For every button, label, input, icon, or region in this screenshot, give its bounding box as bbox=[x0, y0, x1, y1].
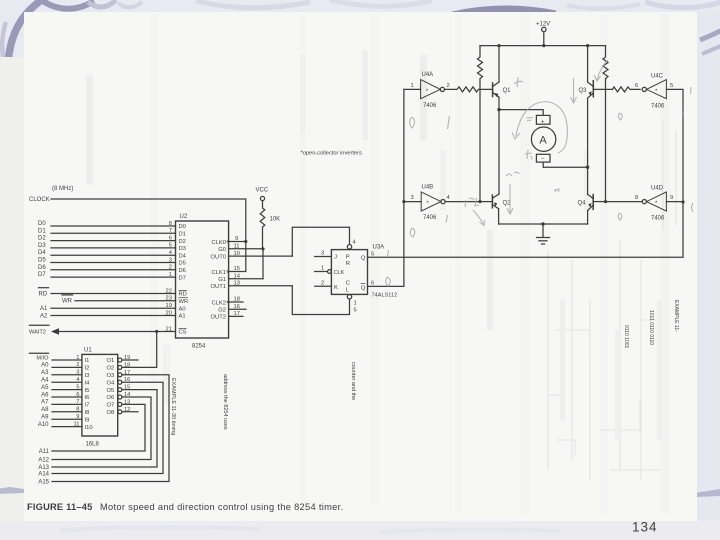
wire Q4 base bbox=[593, 201, 605, 203]
svg-text:5: 5 bbox=[354, 308, 357, 314]
svg-text:OUT2: OUT2 bbox=[211, 315, 226, 321]
svg-text:3: 3 bbox=[76, 370, 79, 376]
output O2 bubble, wire to CS node bbox=[118, 332, 157, 370]
svg-text:D7: D7 bbox=[38, 272, 46, 278]
svg-text:D0: D0 bbox=[38, 221, 46, 227]
bleed-through schematic ghost right bbox=[548, 120, 676, 480]
wire I6 A6 bbox=[52, 396, 82, 398]
svg-text:3: 3 bbox=[169, 257, 172, 263]
wire D4 bbox=[51, 254, 176, 256]
svg-text:I2: I2 bbox=[85, 366, 90, 372]
svg-text:5: 5 bbox=[670, 83, 673, 89]
svg-text:U2: U2 bbox=[180, 214, 188, 220]
wire I5 A5 bbox=[52, 389, 82, 391]
wire Qbar output bbox=[368, 89, 404, 286]
svg-text:D7: D7 bbox=[179, 275, 186, 281]
decorative bottom-left band bbox=[0, 487, 24, 494]
svg-text:19: 19 bbox=[166, 303, 172, 309]
svg-text:CLK2: CLK2 bbox=[211, 300, 226, 306]
svg-text:3: 3 bbox=[411, 195, 414, 201]
svg-text:D3: D3 bbox=[179, 246, 186, 252]
svg-text:J: J bbox=[334, 255, 337, 261]
svg-text:23: 23 bbox=[166, 296, 172, 302]
node rail +12V bbox=[542, 44, 545, 47]
wire Q2 base bbox=[480, 201, 492, 203]
svg-text:A9: A9 bbox=[41, 415, 49, 421]
transistor Q2 bbox=[492, 194, 498, 224]
wire D2 bbox=[51, 240, 176, 242]
svg-text:CLK0: CLK0 bbox=[211, 240, 226, 246]
wire I1 M/IO bbox=[30, 353, 82, 360]
svg-text:FIGURE 11–45: FIGURE 11–45 bbox=[27, 502, 92, 512]
node Q4 base junction bbox=[604, 200, 607, 203]
svg-text:6: 6 bbox=[635, 83, 638, 89]
scan streak texture bbox=[150, 14, 158, 474]
svg-text:D5: D5 bbox=[179, 261, 186, 267]
svg-text:G2: G2 bbox=[218, 308, 226, 314]
svg-text:VCC: VCC bbox=[256, 188, 269, 194]
svg-text:9: 9 bbox=[76, 414, 79, 420]
transistor Q3 bbox=[588, 46, 594, 195]
bleed-through dark column left of U1 outputs bbox=[163, 345, 170, 405]
svg-text:5: 5 bbox=[169, 243, 172, 249]
svg-text:EXAMPLE 11-30 timing: EXAMPLE 11-30 timing bbox=[170, 378, 176, 435]
pencil equals mark left of motor plus bbox=[527, 118, 534, 121]
inverter U4D 7406 bbox=[606, 192, 684, 211]
svg-text:A2: A2 bbox=[40, 314, 48, 320]
decorative bottom strip bbox=[0, 521, 720, 540]
inverter U4B 7406 bbox=[404, 192, 480, 211]
pencil d-n mark bbox=[506, 172, 519, 176]
svg-text:U4D: U4D bbox=[651, 186, 664, 192]
svg-text:21: 21 bbox=[166, 326, 172, 332]
svg-text:7: 7 bbox=[76, 399, 79, 405]
svg-text:+12V: +12V bbox=[536, 22, 550, 28]
svg-text:A13: A13 bbox=[38, 465, 49, 471]
svg-text:G0: G0 bbox=[218, 247, 226, 253]
wire U2 pin G0 bbox=[229, 248, 263, 250]
svg-text:8: 8 bbox=[635, 195, 638, 201]
labels U2 inside left bbox=[179, 224, 189, 336]
wire D1 bbox=[51, 232, 176, 234]
wire K stub pin 2 bbox=[315, 285, 332, 287]
wire motor bottom bbox=[543, 166, 587, 168]
pencil I mark near Q pin bbox=[388, 250, 389, 256]
svg-text:D2: D2 bbox=[179, 239, 186, 245]
svg-text:A6: A6 bbox=[41, 392, 49, 398]
pencil down arrow near Q3 bbox=[571, 78, 577, 103]
labels U1 inputs outside bbox=[36, 355, 49, 428]
node G0 pull-up junction bbox=[261, 247, 264, 250]
svg-text:D1: D1 bbox=[179, 232, 186, 238]
svg-text:U3A: U3A bbox=[373, 245, 385, 251]
wire pull-up to G1 bbox=[262, 249, 264, 279]
wire OUT0 loop to preset bbox=[292, 227, 349, 256]
pencil mark +12 near Q1 bbox=[514, 77, 523, 87]
svg-text:U4C: U4C bbox=[651, 74, 664, 80]
svg-text:22: 22 bbox=[166, 288, 172, 294]
svg-text:I9: I9 bbox=[85, 417, 90, 423]
decorative right margin bbox=[697, 12, 720, 521]
wire U2 pin OUT1 bbox=[229, 285, 293, 287]
svg-text:+: + bbox=[541, 119, 545, 126]
clock input wedges U2 bbox=[227, 240, 229, 304]
decorative top-left outer light arc bbox=[2, 22, 6, 57]
svg-text:address the 8254 uses: address the 8254 uses bbox=[222, 374, 228, 430]
resistor Q1 pull-up +12V bbox=[478, 46, 483, 202]
svg-text:A8: A8 bbox=[41, 407, 49, 413]
svg-text:7406: 7406 bbox=[423, 103, 437, 109]
ground bbox=[537, 224, 550, 244]
svg-text:15: 15 bbox=[124, 385, 130, 391]
wire CLK stub pin 1 bbox=[315, 271, 328, 273]
wire RD bbox=[39, 288, 176, 294]
svg-text:A0: A0 bbox=[179, 306, 186, 312]
svg-text:7406: 7406 bbox=[423, 215, 437, 221]
node rail Q1 bbox=[497, 44, 500, 47]
svg-text:U4B: U4B bbox=[422, 185, 434, 191]
wire +12V rail bbox=[480, 45, 606, 47]
svg-text:8: 8 bbox=[169, 221, 172, 227]
pencil mark near ground bbox=[554, 189, 560, 192]
svg-text:2: 2 bbox=[169, 265, 172, 271]
svg-text:11: 11 bbox=[73, 421, 79, 427]
chip U2 8254 bbox=[176, 221, 229, 338]
svg-text:1: 1 bbox=[76, 355, 79, 361]
pin numbers U2 right bbox=[234, 236, 241, 317]
flip-flop U3A 74ALS112 bbox=[328, 245, 368, 299]
svg-text:A7: A7 bbox=[41, 400, 49, 406]
svg-text:CLK1: CLK1 bbox=[211, 270, 226, 276]
power +12V terminal bbox=[542, 27, 546, 45]
svg-text:D4: D4 bbox=[38, 250, 46, 256]
svg-text:Q3: Q3 bbox=[579, 88, 588, 94]
output O4 bubble, wire to A14 bbox=[52, 380, 163, 473]
svg-text:7: 7 bbox=[169, 228, 172, 234]
wire I4 A4 bbox=[52, 381, 82, 383]
pencil bracket right margin bbox=[690, 87, 693, 94]
svg-text:A10: A10 bbox=[38, 422, 49, 428]
pencil 12V near Q2 bbox=[465, 198, 479, 207]
node CLK0 junction bbox=[244, 240, 247, 243]
wire I2 A0 bbox=[52, 366, 82, 368]
pencil D mark below U4C bbox=[618, 113, 622, 120]
overlines U2 inside bbox=[179, 291, 189, 329]
svg-text:13: 13 bbox=[124, 399, 130, 405]
node ground junction bbox=[541, 222, 544, 225]
svg-text:CS: CS bbox=[179, 330, 187, 336]
pencil 0 mark below U4B bbox=[410, 228, 415, 237]
svg-text:8254: 8254 bbox=[192, 344, 206, 350]
wire D7 bbox=[51, 276, 176, 278]
decorative top edge light arcs right bbox=[567, 4, 640, 9]
pencil D mark right of Q4 bbox=[618, 213, 622, 220]
pencil curve arrow below Q2 label bbox=[473, 210, 485, 226]
svg-text:O4: O4 bbox=[107, 380, 116, 386]
svg-text:15: 15 bbox=[234, 266, 240, 272]
svg-text:WR: WR bbox=[62, 299, 73, 305]
svg-text:M/IO: M/IO bbox=[36, 355, 49, 361]
wire motor top bbox=[499, 110, 543, 116]
wire D0 bbox=[51, 225, 176, 227]
pin number 15 clear bbox=[354, 301, 357, 314]
pencil big arrow around motor bbox=[516, 102, 567, 153]
svg-text:10: 10 bbox=[234, 251, 240, 257]
wire U2 pin OUT0 bbox=[229, 255, 293, 257]
svg-text:6: 6 bbox=[169, 235, 172, 241]
svg-text:G1: G1 bbox=[218, 277, 226, 283]
inverter U4A 7406 bbox=[404, 80, 445, 99]
svg-text:I7: I7 bbox=[85, 403, 90, 409]
pencil oval below U4A bbox=[410, 117, 415, 128]
svg-text:I6: I6 bbox=[85, 395, 90, 401]
decorative top edge band dark bbox=[44, 1, 94, 9]
svg-text:RD: RD bbox=[179, 292, 187, 298]
wire D3 bbox=[51, 247, 176, 249]
svg-text:R: R bbox=[346, 261, 350, 267]
decorative dark band top middle-right bbox=[452, 5, 556, 12]
svg-text:2: 2 bbox=[76, 362, 79, 368]
pin numbers U1 right bbox=[124, 355, 130, 413]
wire U2 pin G1 bbox=[229, 278, 263, 280]
svg-text:I4: I4 bbox=[85, 380, 91, 386]
motor M1 armature bbox=[531, 115, 555, 167]
svg-text:D2: D2 bbox=[38, 236, 46, 242]
svg-text:D4: D4 bbox=[179, 253, 187, 259]
wire I9 A9 bbox=[52, 418, 82, 420]
inverter U4C 7406 bbox=[642, 80, 683, 203]
pencil arrow right resistor bbox=[594, 60, 608, 81]
transistor Q4 bbox=[588, 194, 594, 224]
svg-text:WR: WR bbox=[179, 299, 189, 305]
svg-text:13: 13 bbox=[234, 280, 240, 286]
pin numbers control bbox=[166, 288, 172, 332]
pencil plus squiggle motor lower left bbox=[525, 150, 533, 160]
labels U3A inside bbox=[334, 254, 366, 293]
svg-text:P: P bbox=[346, 254, 350, 260]
output O7 bubble, wire to A11 bbox=[52, 402, 145, 451]
bleed-through text ghosts top bbox=[86, 75, 93, 185]
resistor Q1 base series bbox=[445, 87, 493, 92]
node rail Q3 bbox=[586, 44, 589, 47]
resistor Q3 base series bbox=[613, 87, 641, 92]
svg-text:Q: Q bbox=[361, 256, 366, 262]
svg-text:1: 1 bbox=[169, 272, 172, 278]
chip U1 16L8 bbox=[82, 354, 118, 436]
svg-text:A14: A14 bbox=[38, 472, 49, 478]
svg-text:A0: A0 bbox=[41, 363, 49, 369]
wire OUT1 loop to clear bbox=[292, 286, 349, 315]
svg-text:17: 17 bbox=[124, 370, 130, 376]
bleed-through bluish text columns right of U1 bbox=[170, 362, 356, 435]
svg-text:D0: D0 bbox=[179, 224, 186, 230]
svg-text:U4A: U4A bbox=[422, 72, 434, 78]
svg-text:D5: D5 bbox=[38, 258, 46, 264]
wire U2 pin OUT2 stub bbox=[229, 315, 243, 317]
wire Q3 base from resistor bbox=[593, 88, 612, 90]
overline Qbar inside bbox=[361, 283, 366, 285]
svg-text:1011 0110 0110: 1011 0110 0110 bbox=[648, 310, 654, 345]
wire D6 bbox=[51, 269, 176, 271]
svg-text:D6: D6 bbox=[179, 268, 186, 274]
wire U2 pin CLK2 stub bbox=[229, 301, 243, 303]
labels D0-D7 outside bbox=[38, 221, 46, 278]
svg-text:134: 134 bbox=[632, 520, 658, 535]
svg-text:O7: O7 bbox=[107, 403, 115, 409]
svg-text:5: 5 bbox=[371, 251, 374, 257]
wire U2 pin G2 stub bbox=[229, 308, 246, 310]
svg-text:20: 20 bbox=[166, 310, 172, 316]
svg-text:7406: 7406 bbox=[651, 104, 665, 110]
node CS junction bbox=[155, 330, 158, 333]
svg-text:6: 6 bbox=[371, 281, 374, 287]
output O8 bubble and stub bbox=[118, 410, 138, 414]
decorative top edge light arcs middle bbox=[196, 1, 310, 8]
svg-text:A1: A1 bbox=[179, 314, 186, 320]
svg-text:9: 9 bbox=[235, 236, 238, 242]
wire U2 pin CLK0 stub bbox=[229, 241, 246, 243]
wire D5 bbox=[51, 262, 176, 264]
svg-text:D1: D1 bbox=[38, 228, 46, 234]
svg-text:OUT1: OUT1 bbox=[211, 284, 226, 290]
svg-text:18: 18 bbox=[234, 297, 240, 303]
output O3 bubble, wire to A15 bbox=[52, 373, 169, 482]
wire I8 A8 bbox=[52, 411, 82, 413]
svg-text:I5: I5 bbox=[85, 388, 90, 394]
svg-text:18: 18 bbox=[124, 362, 130, 368]
pencil long down arrow near Q2 bbox=[507, 184, 513, 214]
output O1 bubble and stub bbox=[118, 358, 138, 362]
svg-text:O5: O5 bbox=[107, 388, 115, 394]
wire Q output bbox=[368, 202, 684, 257]
svg-text:1: 1 bbox=[411, 83, 414, 89]
svg-text:17: 17 bbox=[234, 311, 240, 317]
resistor Q3 pull-up +12V bbox=[603, 46, 608, 202]
svg-text:2: 2 bbox=[321, 280, 324, 286]
svg-text:11: 11 bbox=[234, 244, 240, 250]
svg-text:O6: O6 bbox=[107, 395, 115, 401]
pencil bracket near U4C bbox=[682, 110, 685, 117]
output O5 bubble, wire to A13 bbox=[52, 388, 157, 467]
svg-text:Q1: Q1 bbox=[503, 88, 512, 94]
labels A11-A15 bbox=[38, 449, 49, 486]
wire J stub pin 3 bbox=[315, 256, 332, 258]
svg-text:12: 12 bbox=[124, 407, 130, 413]
wire WR bbox=[62, 295, 176, 301]
svg-text:counter and the: counter and the bbox=[350, 362, 356, 400]
wire CLOCK line bbox=[51, 199, 246, 242]
resistor 10K pull-up VCC bbox=[260, 196, 265, 248]
output O6 bubble, wire to A12 bbox=[52, 395, 151, 460]
svg-text:A1: A1 bbox=[40, 306, 48, 312]
svg-text:19: 19 bbox=[124, 355, 130, 361]
wire I10 A10 bbox=[52, 426, 82, 428]
svg-text:O3: O3 bbox=[107, 373, 115, 379]
svg-text:−: − bbox=[541, 156, 545, 163]
svg-text:Q: Q bbox=[361, 285, 366, 291]
decorative top-left corner swoosh dark bbox=[9, 0, 49, 58]
svg-text:I3: I3 bbox=[85, 373, 90, 379]
wire CLOCK to CLK1 bbox=[229, 242, 246, 272]
svg-text:U1: U1 bbox=[84, 348, 92, 354]
transistor Q1 bbox=[493, 46, 499, 195]
svg-text:0110 1001: 0110 1001 bbox=[623, 325, 629, 348]
svg-text:7406: 7406 bbox=[651, 216, 665, 222]
svg-text:OUT0: OUT0 bbox=[211, 254, 226, 260]
svg-text:D6: D6 bbox=[38, 265, 46, 271]
labels U1 inside bbox=[85, 358, 116, 431]
node U4D input junction bbox=[681, 200, 684, 203]
svg-text:A3: A3 bbox=[41, 370, 49, 376]
node U4B input junction bbox=[402, 200, 405, 203]
pencil stroke below U4B bbox=[446, 215, 448, 223]
wire I7 A7 bbox=[52, 403, 82, 405]
svg-text:14: 14 bbox=[124, 392, 130, 398]
svg-text:D3: D3 bbox=[38, 243, 46, 249]
svg-text:(8 MHz): (8 MHz) bbox=[52, 186, 73, 192]
labels U2 inside right bbox=[211, 240, 226, 321]
decorative top edge band light bbox=[88, 0, 116, 7]
svg-text:6: 6 bbox=[76, 392, 79, 398]
svg-text:Motor speed and direction cont: Motor speed and direction control using … bbox=[100, 502, 343, 512]
pin numbers D bus bbox=[169, 221, 173, 278]
svg-text:A4: A4 bbox=[41, 378, 49, 384]
svg-text:3: 3 bbox=[321, 251, 324, 257]
svg-text:1: 1 bbox=[321, 266, 324, 272]
wire WAIT2 with left arrow bbox=[30, 325, 176, 335]
pencil D mark near Qbar pin bbox=[386, 277, 391, 286]
svg-text:14: 14 bbox=[234, 274, 241, 280]
svg-text:CLK: CLK bbox=[334, 270, 345, 276]
decorative left margin texture bbox=[0, 57, 24, 521]
svg-text:I8: I8 bbox=[85, 410, 90, 416]
svg-text:*open-collector inverters: *open-collector inverters bbox=[301, 151, 362, 157]
svg-text:5: 5 bbox=[76, 384, 79, 390]
svg-text:16L8: 16L8 bbox=[86, 442, 100, 448]
svg-text:16: 16 bbox=[234, 304, 240, 310]
wire I3 A3 bbox=[52, 374, 82, 376]
svg-text:O8: O8 bbox=[107, 410, 115, 416]
svg-text:1: 1 bbox=[354, 301, 357, 307]
pencil stroke below U4A right bbox=[448, 116, 450, 129]
svg-text:10K: 10K bbox=[270, 217, 281, 223]
svg-text:RD: RD bbox=[39, 292, 48, 298]
node Q1 emitter / motor left bbox=[497, 108, 500, 111]
svg-text:O1: O1 bbox=[107, 358, 115, 364]
svg-text:I1: I1 bbox=[85, 358, 90, 364]
svg-text:A11: A11 bbox=[39, 449, 50, 455]
svg-text:16: 16 bbox=[124, 377, 130, 383]
svg-text:I10: I10 bbox=[85, 425, 93, 431]
svg-text:A: A bbox=[539, 135, 547, 147]
svg-text:K: K bbox=[334, 285, 338, 291]
svg-text:8: 8 bbox=[76, 407, 79, 413]
svg-text:C: C bbox=[346, 281, 351, 287]
svg-text:O2: O2 bbox=[107, 366, 115, 372]
svg-text:A12: A12 bbox=[38, 458, 49, 464]
wire bottom rail bbox=[499, 223, 588, 225]
node Q2 base junction bbox=[478, 200, 481, 203]
svg-text:9: 9 bbox=[670, 195, 673, 201]
svg-text:Q4: Q4 bbox=[578, 201, 587, 207]
wire A2 bbox=[51, 315, 176, 317]
svg-text:2: 2 bbox=[447, 83, 450, 89]
svg-text:CLOCK: CLOCK bbox=[29, 197, 50, 203]
node motor bottom / Q3 Q4 bbox=[586, 166, 589, 169]
svg-text:EXAMPLE 11-: EXAMPLE 11- bbox=[673, 300, 679, 332]
svg-text:WAIT2: WAIT2 bbox=[29, 330, 46, 336]
wire A1 bbox=[51, 307, 176, 309]
